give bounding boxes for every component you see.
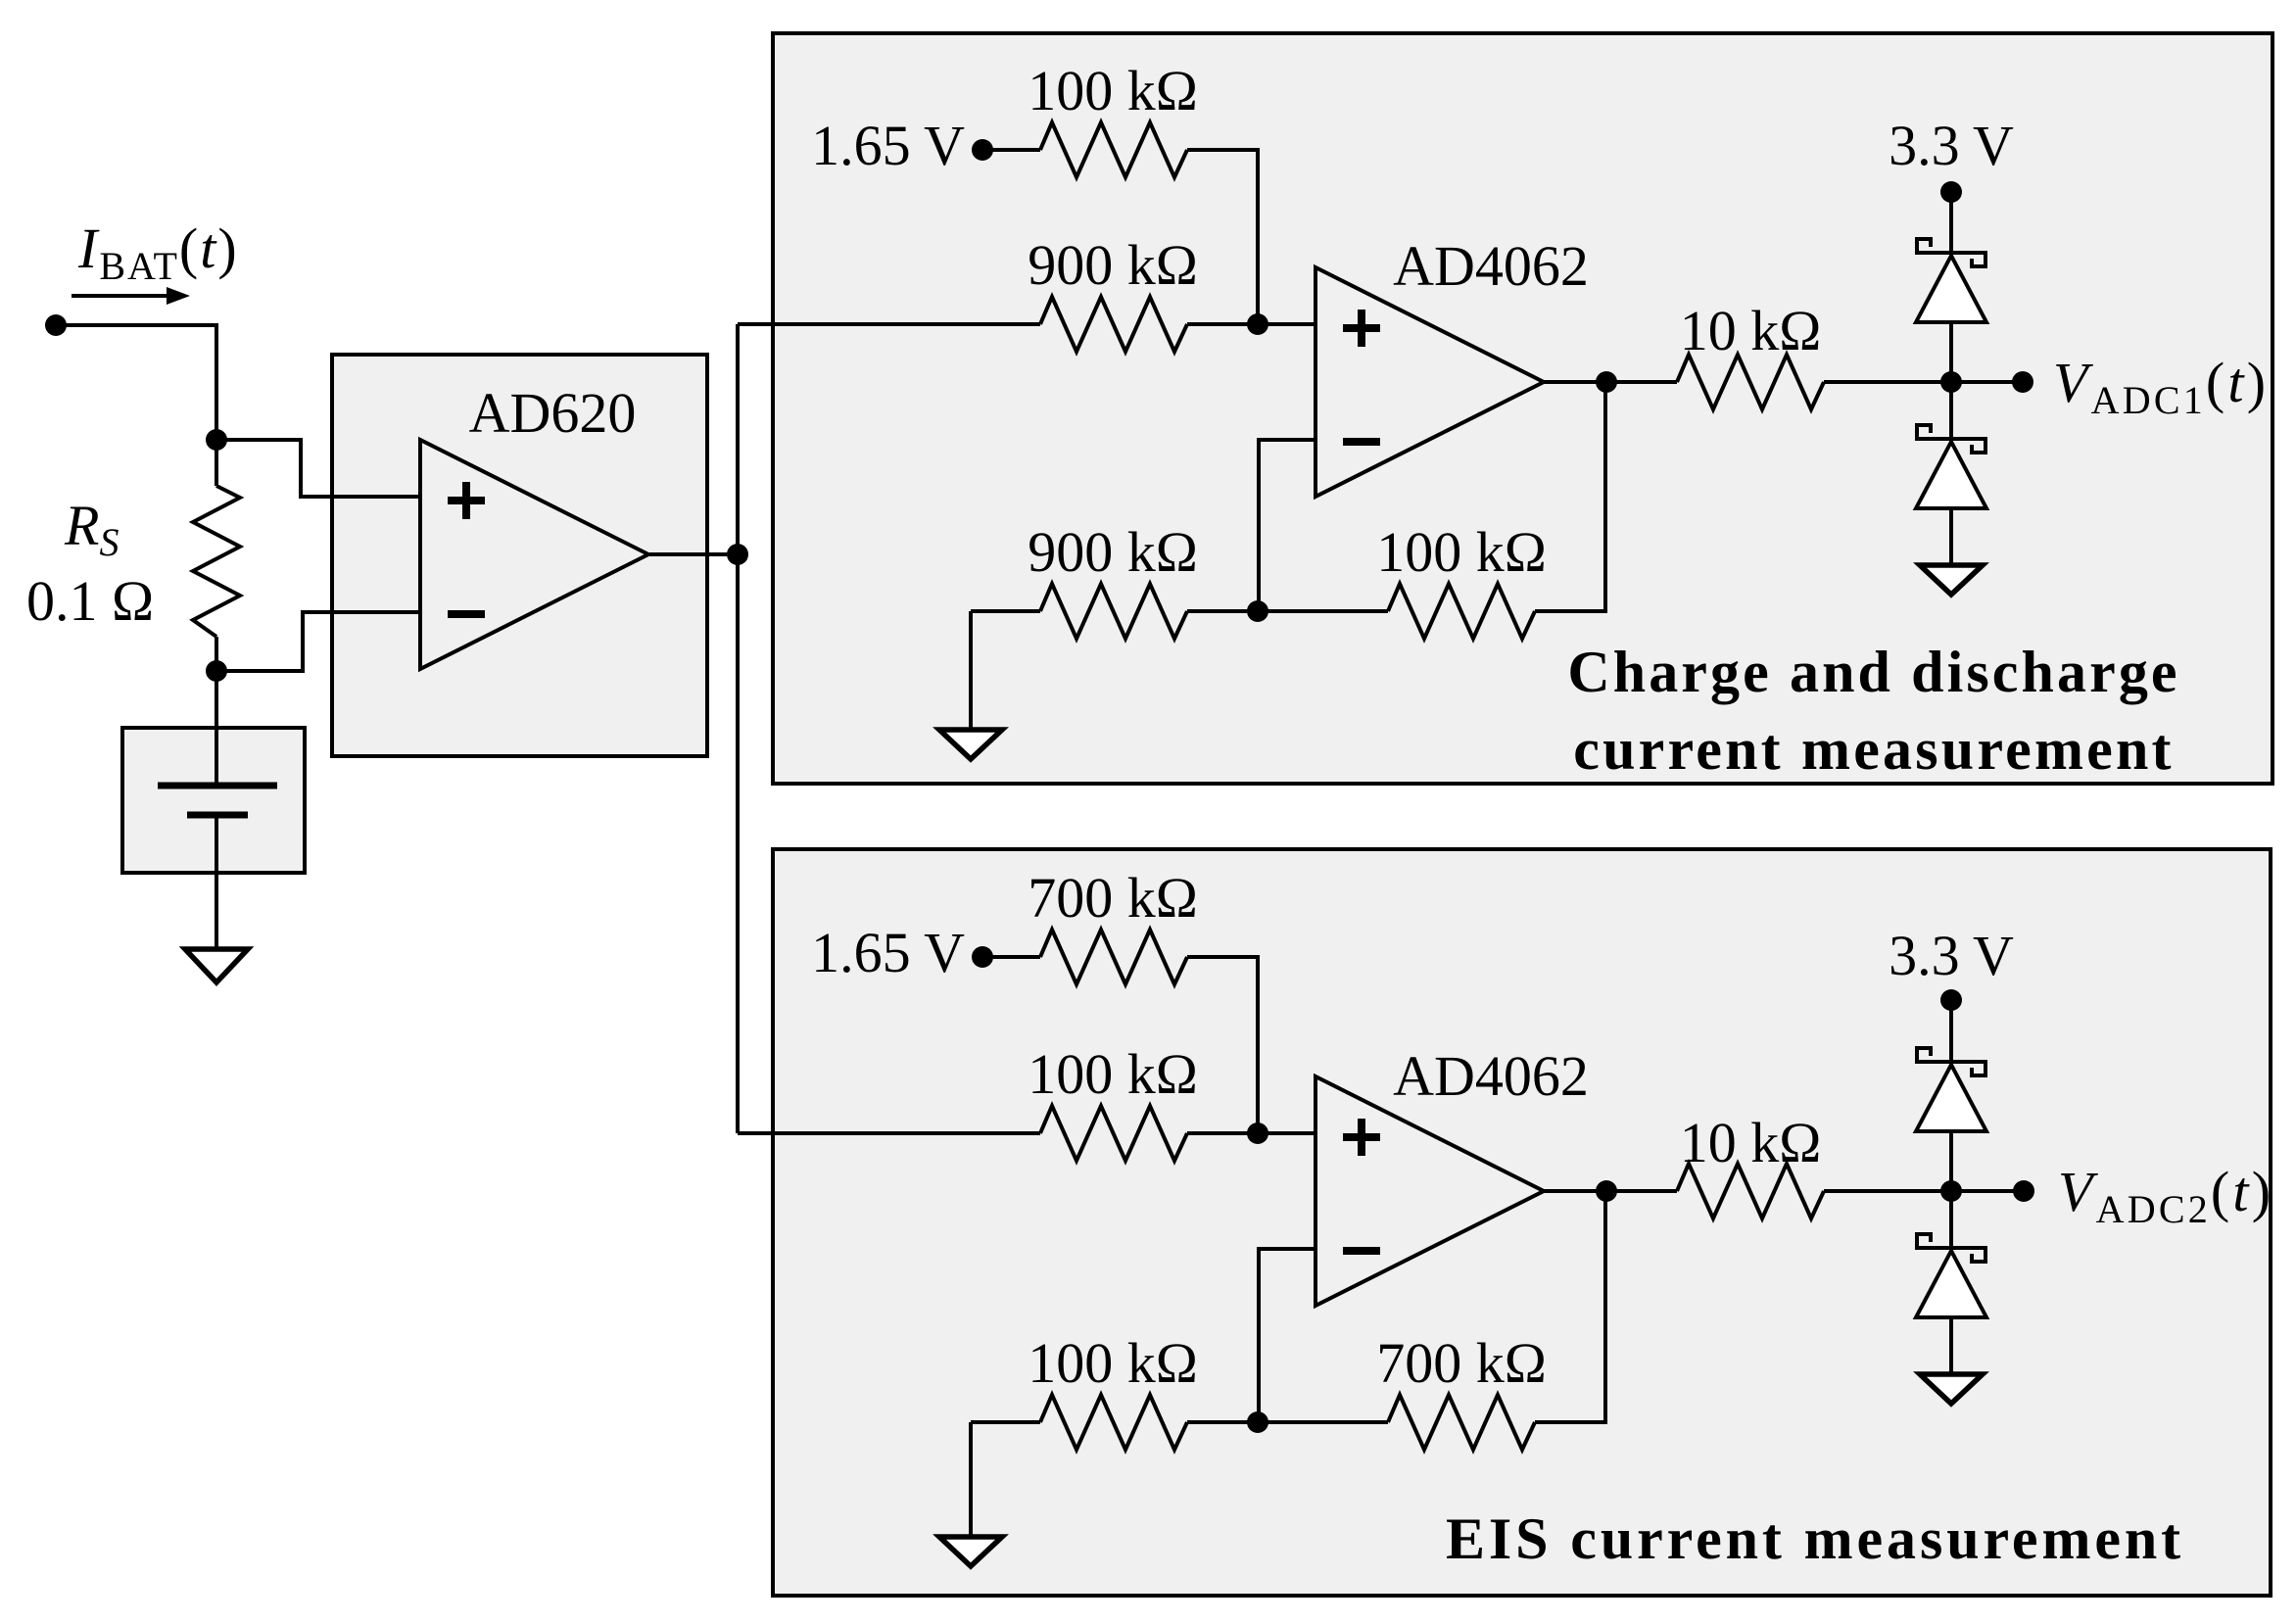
node feedback top (1247, 600, 1268, 622)
resistor 700k feedback bottom (1388, 1395, 1535, 1450)
wire Rs top to AD620 + (216, 440, 420, 497)
ground top box (939, 730, 1002, 759)
ground bottom box (939, 1537, 1002, 1566)
svg-text:100 kΩ: 100 kΩ (1028, 1331, 1198, 1395)
AD620 block background (332, 355, 707, 756)
svg-text:10 kΩ: 10 kΩ (1680, 1111, 1822, 1174)
diode D1 clamp high top (1915, 239, 1987, 322)
resistor 100k input bottom (1040, 1106, 1187, 1161)
wire 3.3V to D1 (1949, 192, 1953, 253)
node 1.65V top (972, 139, 993, 161)
svg-text:Charge and discharge: Charge and discharge (1567, 640, 2179, 704)
svg-text:current measurement: current measurement (1573, 717, 2174, 782)
svg-text:EIS current measurement: EIS current measurement (1446, 1506, 2184, 1571)
svg-text:RS: RS (64, 494, 119, 564)
node Vadc1 terminal (2012, 371, 2033, 393)
node +input bottom (1247, 1122, 1268, 1144)
ground battery (185, 949, 248, 982)
svg-text:900 kΩ: 900 kΩ (1028, 233, 1198, 297)
node battery terminal (45, 314, 67, 336)
svg-text:700 kΩ: 700 kΩ (1028, 866, 1198, 930)
op-amp AD4062 bottom (1315, 1076, 1544, 1306)
wire R5 to +node bottom (1187, 957, 1258, 1133)
wire D3 to D4 (1949, 1131, 1953, 1248)
node Rs bottom junction (206, 660, 227, 682)
wire D4 to ground (1949, 1317, 1953, 1374)
wire R2 to opamp+ (1187, 322, 1315, 326)
diode D2 clamp low top (1915, 425, 1987, 508)
svg-text:3.3 V: 3.3 V (1889, 924, 2014, 987)
wire R3 to R4 top (1187, 609, 1388, 613)
resistor 900k feedback top (1040, 584, 1187, 639)
battery cell (158, 783, 277, 789)
op-amp AD620 (420, 440, 648, 669)
node feedback bottom (1247, 1411, 1268, 1433)
svg-text:3.3 V: 3.3 V (1889, 114, 2014, 177)
current arrow (72, 294, 170, 298)
node output top (1596, 371, 1617, 393)
resistor 100k feedback top (1388, 584, 1535, 639)
svg-text:1.65 V: 1.65 V (811, 114, 965, 177)
node Vadc2 terminal (2013, 1180, 2034, 1202)
wire bus to R6 (738, 1131, 1040, 1135)
resistor 10k bottom (1677, 1164, 1824, 1218)
wire Rs to battery (215, 637, 218, 786)
svg-text:0.1 Ω: 0.1 Ω (26, 569, 154, 633)
diode D3 clamp high bottom (1915, 1048, 1987, 1131)
wire ground to R3 top (971, 609, 1040, 613)
wire 10k to Vadc1 (1824, 380, 2023, 384)
wire battery to ground (215, 815, 218, 949)
battery block background (122, 728, 305, 873)
wire to ground bottom box (969, 1422, 973, 1537)
wire 10k to Vadc2 (1824, 1189, 2024, 1193)
wire AD620 output (649, 552, 738, 556)
node +input top (1247, 313, 1268, 335)
svg-text:10 kΩ: 10 kΩ (1680, 299, 1822, 362)
wire R4 to output top (1535, 382, 1605, 611)
wire input to Rs (56, 325, 216, 486)
wire -input to feedback node bottom (1259, 1249, 1315, 1422)
resistor 10k top (1677, 355, 1824, 409)
resistor 100k feedback bottom (1040, 1395, 1187, 1450)
wire R1 to +node (1187, 150, 1258, 324)
svg-text:IBAT(t): IBAT(t) (77, 216, 239, 288)
wire 1.65V to R5 (982, 955, 1040, 959)
resistor 900k input top (1040, 297, 1187, 352)
svg-text:900 kΩ: 900 kΩ (1028, 520, 1198, 584)
svg-text:700 kΩ: 700 kΩ (1376, 1331, 1547, 1395)
wire 1.65V to R1 (982, 148, 1040, 152)
svg-text:100 kΩ: 100 kΩ (1028, 1042, 1198, 1106)
node 3.3V bottom (1940, 989, 1962, 1011)
node output bottom (1596, 1180, 1617, 1202)
wire R8 to output bottom (1535, 1191, 1605, 1422)
ground clamp top (1920, 565, 1983, 595)
wire ground to R7 bottom (971, 1420, 1040, 1424)
svg-text:AD620: AD620 (469, 381, 637, 445)
resistor RS (193, 486, 240, 637)
wire to ground top box (969, 611, 973, 730)
node AD620 output (727, 544, 748, 565)
svg-text:AD4062: AD4062 (1393, 1044, 1589, 1108)
node Rs top junction (206, 429, 227, 451)
op-amp AD4062 top (1315, 267, 1544, 497)
svg-text:100 kΩ: 100 kΩ (1028, 59, 1198, 122)
wire -input to feedback node top (1259, 440, 1315, 611)
node clamp bottom (1940, 1180, 1962, 1202)
wire Rs bottom to AD620 - (216, 612, 420, 671)
wire R7 to R8 bottom (1187, 1420, 1388, 1424)
resistor 700k bias bottom (1040, 930, 1187, 984)
wire output bus vertical (736, 324, 740, 1133)
wire R6 to opamp+ bottom (1187, 1131, 1315, 1135)
wire bus to R2 (738, 322, 1040, 326)
wire opamp out to 10k bottom (1544, 1189, 1677, 1193)
EIS measurement box (773, 849, 2271, 1596)
diode D4 clamp low bottom (1915, 1234, 1987, 1317)
charge/discharge measurement box (773, 33, 2272, 784)
node 1.65V bottom (972, 946, 993, 968)
wire 3.3V to D3 (1949, 1000, 1953, 1062)
ground clamp bottom (1920, 1374, 1983, 1404)
node 3.3V top (1940, 181, 1962, 203)
svg-text:AD4062: AD4062 (1393, 234, 1589, 298)
wire D1 to D2 (1949, 322, 1953, 439)
svg-text:100 kΩ: 100 kΩ (1376, 520, 1547, 584)
resistor 100k bias top (1040, 122, 1187, 177)
wire opamp out to 10k top (1544, 380, 1677, 384)
svg-text:1.65 V: 1.65 V (811, 921, 965, 984)
node clamp top (1940, 371, 1962, 393)
wire D2 to ground (1949, 508, 1953, 565)
